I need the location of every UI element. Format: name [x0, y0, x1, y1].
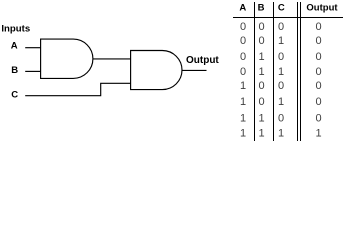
svg-text:A: A [11, 41, 18, 52]
svg-text:1: 1 [258, 113, 264, 125]
svg-text:B: B [258, 2, 265, 13]
svg-text:1: 1 [240, 128, 246, 140]
svg-text:1: 1 [240, 113, 246, 125]
svg-text:C: C [11, 89, 18, 100]
svg-text:0: 0 [315, 35, 321, 47]
svg-text:0: 0 [278, 51, 284, 63]
svg-text:0: 0 [258, 21, 264, 33]
svg-text:1: 1 [258, 66, 264, 78]
svg-text:0: 0 [240, 21, 246, 33]
svg-text:0: 0 [315, 51, 321, 63]
svg-text:0: 0 [258, 35, 264, 47]
svg-text:0: 0 [278, 80, 284, 92]
svg-text:1: 1 [278, 128, 284, 140]
svg-text:0: 0 [278, 21, 284, 33]
svg-text:Output: Output [306, 2, 338, 13]
svg-text:0: 0 [240, 51, 246, 63]
svg-text:C: C [278, 2, 285, 13]
svg-text:0: 0 [315, 80, 321, 92]
svg-text:1: 1 [240, 96, 246, 108]
svg-text:1: 1 [278, 66, 284, 78]
svg-text:0: 0 [315, 66, 321, 78]
svg-text:0: 0 [278, 113, 284, 125]
svg-text:0: 0 [315, 113, 321, 125]
svg-text:1: 1 [258, 51, 264, 63]
svg-text:1: 1 [278, 35, 284, 47]
svg-text:0: 0 [240, 35, 246, 47]
svg-text:B: B [11, 65, 18, 76]
svg-text:0: 0 [315, 21, 321, 33]
svg-text:0: 0 [315, 96, 321, 108]
svg-text:0: 0 [258, 96, 264, 108]
svg-text:0: 0 [240, 66, 246, 78]
svg-text:1: 1 [258, 128, 264, 140]
svg-text:1: 1 [315, 128, 321, 140]
svg-text:Inputs: Inputs [1, 23, 30, 34]
svg-text:0: 0 [258, 80, 264, 92]
svg-text:1: 1 [240, 80, 246, 92]
svg-text:Output: Output [186, 55, 219, 66]
svg-text:A: A [239, 2, 246, 13]
svg-text:1: 1 [278, 96, 284, 108]
